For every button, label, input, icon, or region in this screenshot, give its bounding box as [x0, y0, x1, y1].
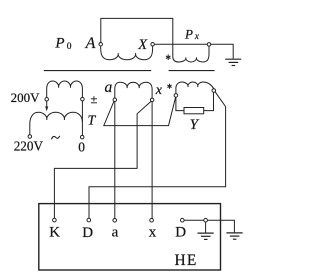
wire Px right terminal to ground — [211, 44, 233, 58]
transformer Px primary winding — [173, 44, 209, 62]
wire a to Px secondary star — [104, 97, 176, 125]
svg-text:P: P — [54, 36, 64, 52]
node ± terminal circle — [81, 97, 85, 101]
wire Px secondary right to HE terminal D — [89, 92, 226, 219]
HE terminal a circle — [113, 219, 117, 223]
svg-text:D: D — [175, 224, 186, 240]
svg-text:X: X — [137, 37, 148, 53]
wire Px secondary left to burden Y — [176, 97, 184, 110]
wire x terminal to HE terminal K — [54, 101, 151, 218]
svg-text:x: x — [155, 83, 163, 98]
winding Px secondary — [176, 82, 214, 94]
node X terminal circle — [151, 43, 155, 47]
node Px secondary left terminal circle — [174, 94, 178, 98]
node a terminal circle — [113, 98, 117, 102]
node 220V terminal circle — [28, 135, 32, 139]
svg-text:K: K — [49, 225, 60, 241]
node 200V terminal circle — [45, 98, 49, 102]
svg-text:0: 0 — [78, 140, 85, 155]
svg-text:0: 0 — [67, 42, 72, 52]
wire x terminal to HE terminal x — [151, 102, 153, 219]
svg-text:T: T — [88, 113, 97, 128]
polarity star Px secondary — [167, 84, 171, 89]
winding P0 secondary a-x — [115, 82, 152, 98]
wire a terminal to HE terminal a — [114, 102, 116, 219]
node 0 terminal circle — [80, 135, 84, 139]
wire X to Px right terminal — [154, 43, 207, 45]
wiper arrow of regulator T — [46, 101, 48, 107]
svg-text:D: D — [82, 225, 93, 241]
ground (top right) — [225, 58, 241, 60]
ground (inside HE) — [205, 222, 207, 233]
transformer P0 primary winding A-X — [101, 46, 153, 60]
svg-text:a: a — [105, 79, 113, 96]
wire ± terminal down to 0 terminal — [81, 101, 83, 135]
svg-text:A: A — [85, 35, 96, 52]
svg-text:x: x — [149, 225, 157, 241]
winding T main (220V to 0) — [30, 112, 83, 134]
core line P0 — [44, 70, 151, 72]
wire internal ground terminal to earth — [207, 220, 234, 232]
svg-text:a: a — [112, 225, 119, 241]
svg-text:x: x — [194, 31, 199, 41]
node A terminal circle — [99, 42, 103, 46]
wire top loop A to Px start — [101, 18, 173, 44]
wire burden Y to Px secondary right — [204, 92, 214, 110]
label ± — [91, 96, 97, 103]
svg-text:200V: 200V — [11, 90, 40, 105]
core line Px — [169, 70, 215, 72]
HE terminal D2 circle — [181, 218, 185, 222]
HE terminal D circle — [87, 218, 91, 222]
svg-text:220V: 220V — [14, 138, 44, 153]
HE box — [39, 204, 221, 270]
ground (outside HE, right) — [226, 232, 242, 234]
wire D2 to internal ground terminal — [184, 219, 204, 221]
svg-text:Y: Y — [190, 117, 200, 133]
node Px secondary right terminal circle — [212, 89, 216, 93]
HE terminal x circle — [150, 218, 154, 222]
node Px right terminal circle — [207, 43, 211, 47]
label ~ — [51, 136, 59, 140]
winding T excitation (200V to ±) — [47, 81, 83, 98]
burden Y box — [184, 108, 204, 114]
polarity star Px primary — [166, 54, 171, 60]
node x terminal circle — [150, 98, 154, 102]
HE terminal K circle — [53, 218, 57, 222]
svg-text:P: P — [184, 26, 193, 41]
svg-text:HE: HE — [175, 252, 198, 269]
HE internal ground terminal circle — [204, 218, 208, 222]
